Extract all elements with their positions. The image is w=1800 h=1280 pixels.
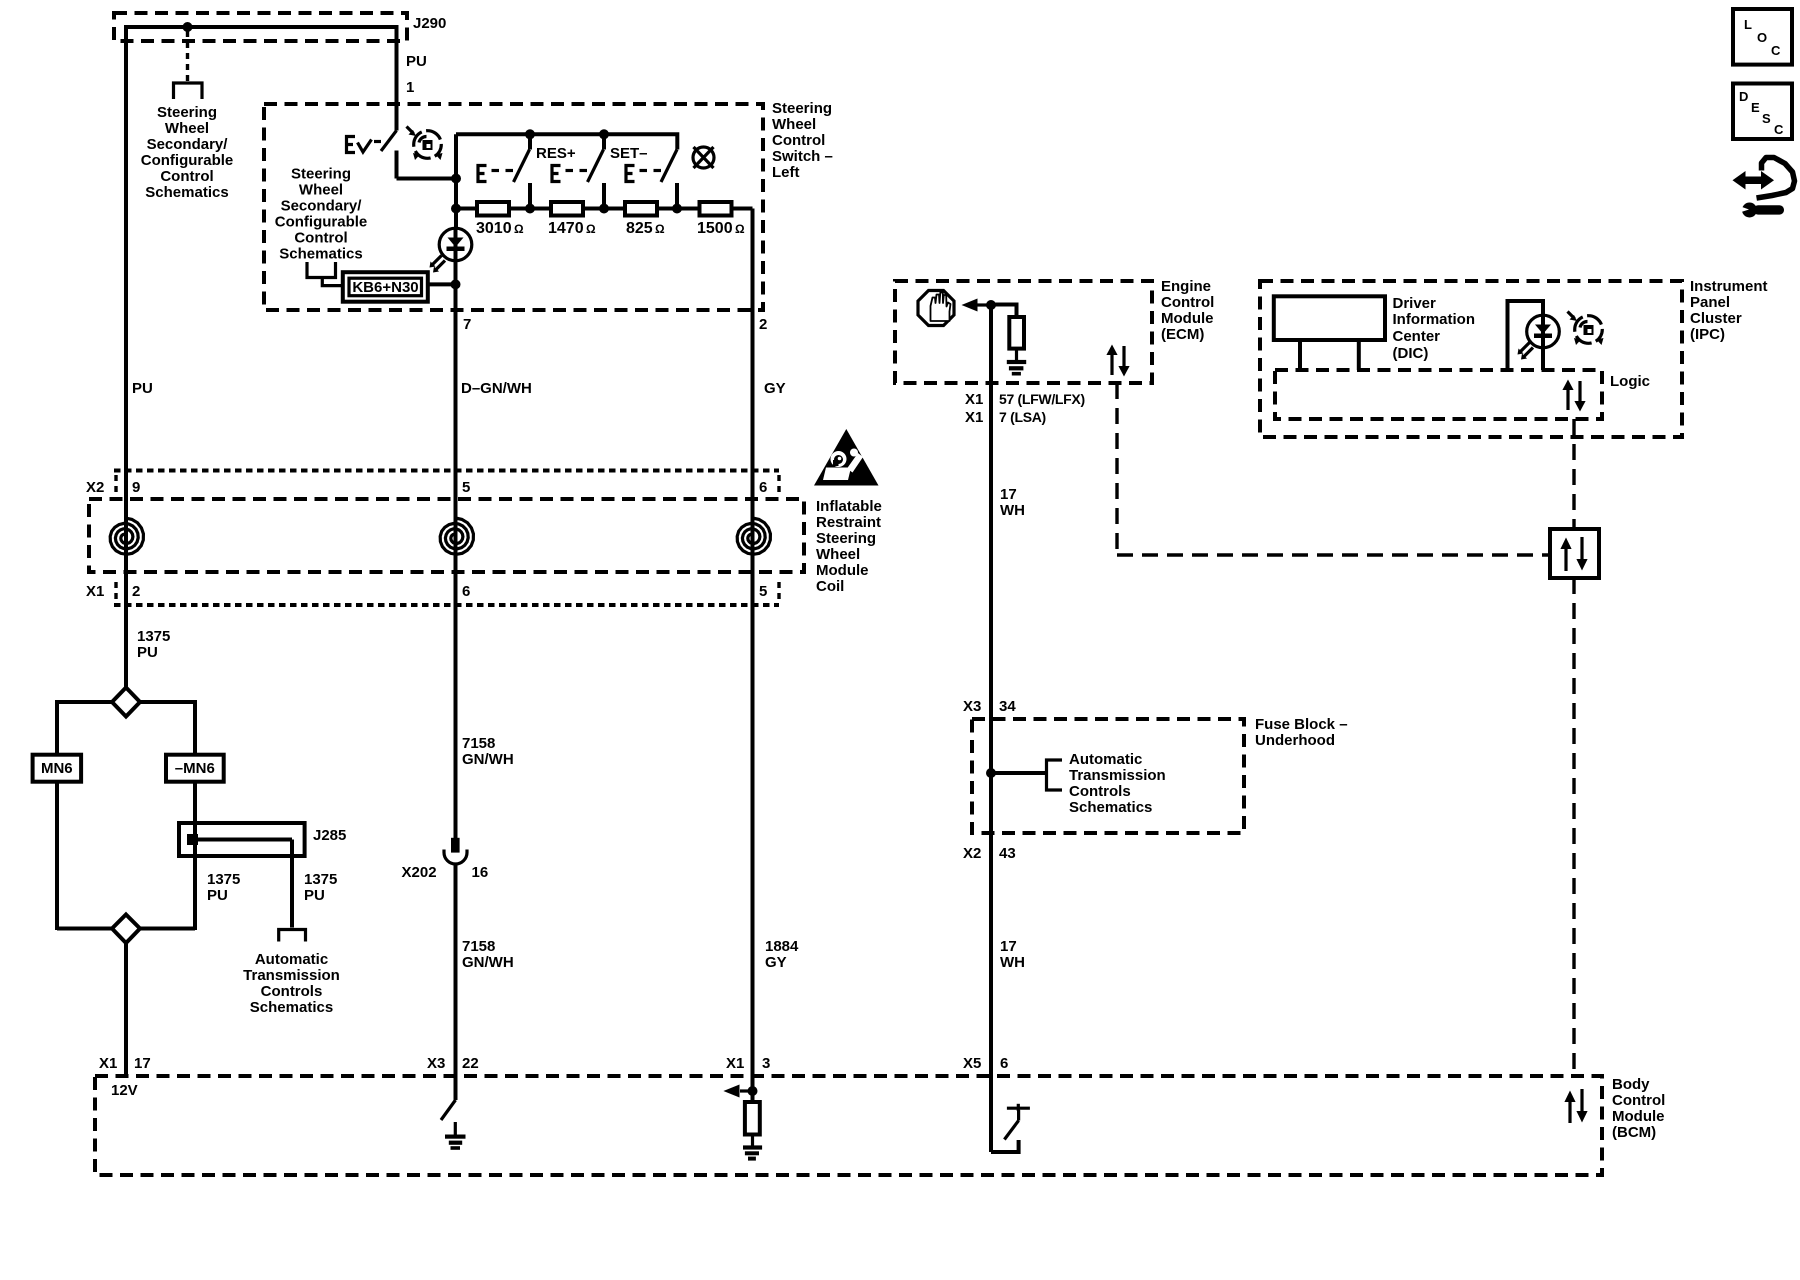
branch bottom rail (57, 927, 195, 931)
ground stub X3/22 (454, 1122, 457, 1135)
svg-text:PU: PU (137, 644, 158, 661)
stub S2 upper (528, 134, 532, 149)
junction rail 530 (525, 204, 535, 214)
pin 16 (472, 864, 489, 881)
svg-text:Wheel: Wheel (165, 120, 209, 137)
svg-text:Steering: Steering (772, 100, 832, 117)
text fuse block underhood (1255, 716, 1348, 749)
switch S3 actuator E (552, 166, 587, 182)
svg-text:6: 6 (1000, 1055, 1008, 1072)
svg-text:Ω: Ω (514, 222, 524, 236)
serial data arrows IPC logic (1562, 380, 1585, 412)
branch right wire to J285 (193, 782, 197, 823)
wire KB6 to W2 (428, 282, 456, 286)
label Logic (1610, 373, 1650, 390)
svg-text:D–GN/WH: D–GN/WH (461, 380, 532, 397)
text automatic transmission controls schematics (fuse block) (1069, 751, 1166, 816)
label J285 (313, 827, 346, 844)
svg-text:–MN6: –MN6 (175, 760, 215, 777)
off-page bracket (steering wheel secondary schematics) (174, 83, 203, 99)
svg-text:X1: X1 (99, 1055, 117, 1072)
junction bus 530 (525, 129, 535, 139)
junction at bus x456 (451, 174, 461, 184)
text body control module (BCM) (1612, 1076, 1665, 1141)
option box -MN6 (166, 755, 224, 782)
label steering wheel control switch - left (772, 100, 833, 181)
pin X3 22 (427, 1055, 479, 1072)
stub S3 lower (602, 183, 606, 209)
svg-text:(DIC): (DIC) (1393, 345, 1429, 362)
option diamond lower (112, 915, 140, 944)
connector line X1 (in-line harness) (114, 603, 779, 607)
svg-text:PU: PU (132, 380, 153, 397)
connector line X2 (in-line harness) (114, 469, 779, 473)
resistor R1 3010 (477, 202, 509, 216)
svg-text:825: 825 (626, 220, 653, 237)
label 7158 GN/WH lower (462, 938, 514, 971)
svg-text:Schematics: Schematics (279, 246, 362, 263)
svg-text:Engine: Engine (1161, 278, 1211, 295)
pin 2 (759, 316, 767, 333)
value 1470 ohm (548, 220, 596, 237)
svg-text:(ECM): (ECM) (1161, 326, 1204, 343)
svg-text:X1: X1 (86, 583, 104, 600)
svg-text:RES+: RES+ (536, 145, 576, 162)
svg-text:Secondary/: Secondary/ (147, 136, 229, 153)
switch S1 actuator E with check (347, 137, 382, 153)
text instrument panel cluster (IPC) (1690, 278, 1768, 343)
pin X3 34 (963, 698, 1016, 715)
svg-text:5: 5 (462, 479, 470, 496)
svg-text:WH: WH (1000, 954, 1025, 971)
svg-text:Logic: Logic (1610, 373, 1650, 390)
BCM leg X1/3 wire (751, 1076, 755, 1102)
LED D1 backlight (430, 228, 472, 272)
pin X2 43 (963, 845, 1016, 862)
wire W2 upper segment (454, 134, 458, 228)
svg-text:GY: GY (765, 954, 787, 971)
svg-text:J285: J285 (313, 827, 346, 844)
svg-text:6: 6 (759, 479, 767, 496)
svg-text:GY: GY (764, 380, 786, 397)
svg-text:16: 16 (472, 864, 489, 881)
svg-text:(IPC): (IPC) (1690, 326, 1725, 343)
text steering wheel secondary (inner) (275, 166, 368, 263)
svg-text:Module: Module (1161, 310, 1214, 327)
svg-text:7158: 7158 (462, 938, 495, 955)
svg-text:Center: Center (1393, 328, 1441, 345)
svg-text:1375: 1375 (304, 871, 337, 888)
svg-text:Schematics: Schematics (1069, 799, 1152, 816)
svg-text:Transmission: Transmission (243, 967, 340, 984)
svg-text:J290: J290 (413, 15, 446, 32)
text inflatable restraint steering wheel module coil (816, 498, 882, 595)
svg-text:1: 1 (406, 79, 414, 96)
label SET- (610, 145, 648, 162)
svg-text:9: 9 (132, 479, 140, 496)
svg-text:Automatic: Automatic (255, 951, 328, 968)
module box engine control module ECM (895, 281, 1152, 383)
branch top rail (57, 700, 195, 704)
svg-text:MN6: MN6 (41, 760, 73, 777)
pin 2 (132, 583, 140, 600)
label 17 WH upper (1000, 486, 1025, 519)
svg-text:Underhood: Underhood (1255, 732, 1335, 749)
label PU (406, 53, 427, 70)
switch S1 blade (381, 131, 397, 152)
module box steering wheel control switch left (264, 104, 763, 310)
svg-text:5: 5 (759, 583, 767, 600)
svg-text:Wheel: Wheel (816, 546, 860, 563)
option box MN6 (33, 755, 82, 782)
lead to AT controls bracket (991, 771, 1047, 775)
serial data dashed IPC down (1572, 419, 1575, 529)
svg-text:Ω: Ω (655, 222, 665, 236)
DIC leg left (1298, 340, 1302, 370)
svg-text:Wheel: Wheel (772, 116, 816, 133)
svg-text:22: 22 (462, 1055, 479, 1072)
pin 1 (406, 79, 414, 96)
svg-text:Configurable: Configurable (275, 214, 368, 231)
label X1 (86, 583, 104, 600)
svg-text:Steering: Steering (816, 530, 876, 547)
svg-text:GN/WH: GN/WH (462, 751, 514, 768)
svg-text:Secondary/: Secondary/ (281, 198, 363, 215)
coil L3 (737, 518, 770, 554)
internal resistor lead (991, 305, 1017, 319)
module box body control module BCM (95, 1076, 1602, 1175)
pin X5 6 (963, 1055, 1008, 1072)
pin 6 (462, 583, 470, 600)
wire through J285 down (193, 823, 197, 930)
stub S4 lower (675, 183, 679, 209)
dashed lead to off-page bracket (186, 31, 189, 81)
switch S4 blade (661, 150, 677, 183)
svg-text:SET–: SET– (610, 145, 648, 162)
switch S4 actuator E (626, 166, 661, 182)
resistor R4 1500 (700, 202, 732, 216)
pin 5 (759, 583, 767, 600)
coil L2 (440, 518, 473, 554)
lead bracket to KB6 (322, 278, 343, 286)
svg-text:X2: X2 (86, 479, 104, 496)
svg-text:Cluster: Cluster (1690, 310, 1742, 327)
svg-text:X3: X3 (427, 1055, 445, 1072)
svg-text:Steering: Steering (291, 166, 351, 183)
wire W2 from LED to box bottom (454, 260, 458, 312)
display DIC rectangle (1274, 296, 1385, 340)
svg-text:(BCM): (BCM) (1612, 1124, 1656, 1141)
serial data dashed ECM down (1115, 383, 1118, 555)
svg-text:X1: X1 (965, 391, 983, 408)
wire inside J290 (126, 25, 397, 29)
switch S1 lower contact stub (395, 151, 399, 179)
text automatic transmission controls schematics (243, 951, 340, 1016)
wire R4 to W3 (732, 207, 753, 211)
BCM leg X5/6 wire (989, 1076, 993, 1152)
svg-text:L: L (1744, 17, 1752, 32)
svg-text:7: 7 (463, 316, 471, 333)
svg-text:Wheel: Wheel (299, 182, 343, 199)
svg-text:1500: 1500 (697, 220, 733, 237)
label GY (764, 380, 786, 397)
serial data arrows ECM (1106, 345, 1129, 377)
BCM X5/6 switch blade (1004, 1121, 1018, 1140)
svg-text:Module: Module (1612, 1108, 1665, 1125)
svg-text:Left: Left (772, 164, 800, 181)
svg-text:6: 6 (462, 583, 470, 600)
svg-text:3010: 3010 (476, 220, 512, 237)
reference icon LOC (1733, 9, 1792, 65)
svg-text:17: 17 (1000, 486, 1017, 503)
branch left wire upper (55, 700, 59, 755)
resistor lead to ground (751, 1135, 754, 1147)
svg-text:1470: 1470 (548, 220, 584, 237)
svg-text:PU: PU (304, 887, 325, 904)
wire W2 middle segment (454, 310, 458, 839)
svg-text:Control: Control (1161, 294, 1214, 311)
svg-text:2: 2 (132, 583, 140, 600)
cruise indicator icon IPC (1568, 312, 1604, 346)
wire J285 right drop (290, 840, 294, 928)
text driver information center (DIC) (1393, 295, 1476, 362)
svg-text:X3: X3 (963, 698, 981, 715)
label PU on W1 (132, 380, 153, 397)
internal resistor BCM (745, 1102, 760, 1135)
svg-text:Module: Module (816, 562, 869, 579)
svg-text:Control: Control (294, 230, 347, 247)
svg-text:X1: X1 (965, 409, 983, 426)
arrow to stop lamp (962, 299, 992, 312)
BCM X5/6 upper contact stub (1017, 1110, 1020, 1121)
label 1375 PU (right drop) (304, 871, 337, 904)
svg-text:PU: PU (207, 887, 228, 904)
switch S2 blade (514, 150, 530, 183)
coil L1 (110, 518, 143, 554)
junction ECM (986, 300, 996, 310)
label RES+ (536, 145, 576, 162)
svg-text:X202: X202 (402, 864, 437, 881)
svg-text:Schematics: Schematics (250, 999, 333, 1016)
svg-text:2: 2 (759, 316, 767, 333)
top bus of switches (456, 134, 677, 149)
label 7158 GN/WH upper (462, 735, 514, 768)
label J290 (413, 15, 446, 32)
connector code box KB6+N30 (343, 272, 428, 302)
svg-text:3: 3 (762, 1055, 770, 1072)
svg-text:Ω: Ω (735, 222, 745, 236)
junction in J290 (183, 22, 193, 32)
svg-text:34: 34 (999, 698, 1016, 715)
pin 5 (462, 479, 470, 496)
svg-text:17: 17 (134, 1055, 151, 1072)
svg-text:Body: Body (1612, 1076, 1650, 1093)
svg-text:Steering: Steering (157, 104, 217, 121)
svg-text:Coil: Coil (816, 578, 844, 595)
repair info icon (arrows and wrench) (1733, 158, 1795, 218)
svg-text:Controls: Controls (1069, 783, 1131, 800)
svg-text:7 (LSA): 7 (LSA) (999, 409, 1046, 425)
svg-text:C: C (1774, 122, 1784, 137)
label 1375 PU (left drop) (207, 871, 240, 904)
serial data dashed to BCM (1572, 578, 1575, 1076)
module box instrument panel cluster IPC (1260, 281, 1682, 437)
junction bus 604 (599, 129, 609, 139)
wire from J290 down to switch (395, 25, 399, 131)
svg-text:Control: Control (1612, 1092, 1665, 1109)
switch S3 blade (588, 150, 604, 183)
value 1500 ohm (697, 220, 745, 237)
X2 separator tick left (114, 475, 117, 497)
logic box (dashed) (1275, 370, 1602, 419)
pin 7 (463, 316, 471, 333)
splice box J290 (114, 13, 407, 41)
svg-text:Information: Information (1393, 311, 1476, 328)
svg-text:C: C (1771, 43, 1781, 58)
svg-text:PU: PU (406, 53, 427, 70)
label X202 (402, 864, 437, 881)
svg-text:Panel: Panel (1690, 294, 1730, 311)
svg-text:Ω: Ω (586, 222, 596, 236)
label 1884 GY (765, 938, 799, 971)
module box inflatable restraint coil (89, 499, 804, 572)
text steering wheel secondary/configurable control schematics (left) (141, 104, 234, 201)
svg-text:X1: X1 (726, 1055, 744, 1072)
wire W3 upper (751, 209, 755, 1077)
internal resistor ECM (1009, 317, 1024, 349)
svg-text:Configurable: Configurable (141, 152, 234, 169)
resistor ladder rail (456, 207, 753, 211)
serial data gateway box (1550, 529, 1599, 578)
svg-text:Restraint: Restraint (816, 514, 881, 531)
svg-text:7158: 7158 (462, 735, 495, 752)
svg-text:Instrument: Instrument (1690, 278, 1768, 295)
svg-text:KB6+N30: KB6+N30 (352, 279, 418, 296)
svg-text:Inflatable: Inflatable (816, 498, 882, 515)
svg-text:X2: X2 (963, 845, 981, 862)
switch S2 actuator E (478, 166, 513, 182)
resistor R2 1470 (551, 202, 583, 216)
BCM X5/6 contact T-bar (1007, 1104, 1030, 1111)
svg-text:57 (LFW/LFX): 57 (LFW/LFX) (999, 391, 1085, 407)
wire W4 from ECM (989, 305, 993, 1076)
BCM switch leg X3/22 wire (454, 1076, 458, 1100)
svg-text:S: S (1762, 111, 1771, 126)
reference icon DESC (1733, 84, 1792, 140)
off-page bracket to AT controls (279, 930, 306, 942)
svg-text:1375: 1375 (207, 871, 240, 888)
DIC leg right (1357, 340, 1361, 370)
pin X1 3 (726, 1055, 770, 1072)
wire S1 to main bus (397, 177, 457, 181)
svg-text:X5: X5 (963, 1055, 981, 1072)
branch right wire upper (193, 700, 197, 755)
svg-text:Transmission: Transmission (1069, 767, 1166, 784)
label 17 WH lower (1000, 938, 1025, 971)
junction rail 604 (599, 204, 609, 214)
pin 6 (759, 479, 767, 496)
in-line connector X202 (444, 838, 467, 864)
svg-text:WH: WH (1000, 502, 1025, 519)
svg-text:12V: 12V (111, 1082, 138, 1099)
cruise control set-speed icon (407, 127, 443, 161)
stub S2 lower (528, 183, 532, 209)
off-page bracket above KB6 (307, 262, 336, 278)
junction rail 456 (451, 204, 461, 214)
pin X1 57 (LFW/LFX) (965, 391, 1085, 408)
svg-text:Switch –: Switch – (772, 148, 833, 165)
text engine control module (ECM) (1161, 278, 1214, 343)
wire left vertical PU (W1 upper) (124, 25, 128, 687)
X2 end tick right (777, 475, 780, 497)
resistor to ground lead (1015, 349, 1018, 360)
svg-text:GN/WH: GN/WH (462, 954, 514, 971)
option diamond upper (112, 688, 140, 717)
label 12V (111, 1082, 138, 1099)
junction KB6/W2 (451, 279, 461, 289)
svg-text:43: 43 (999, 845, 1016, 862)
svg-text:Controls: Controls (261, 983, 323, 1000)
lamp symbol (693, 147, 714, 168)
svg-text:Automatic: Automatic (1069, 751, 1142, 768)
resistor R3 825 (625, 202, 657, 216)
svg-text:1884: 1884 (765, 938, 799, 955)
serial data arrows BCM (1564, 1089, 1587, 1123)
ground symbol ECM (1007, 360, 1026, 376)
LED indicator IPC (1508, 301, 1560, 370)
X1 separator tick left (114, 582, 117, 601)
serial data dashed horizontal (1117, 553, 1550, 556)
value 3010 ohm (476, 220, 524, 237)
junction fuse block (986, 768, 996, 778)
branch left wire lower (55, 782, 59, 930)
svg-text:Schematics: Schematics (145, 184, 228, 201)
label X2 (86, 479, 104, 496)
pin 9 (132, 479, 140, 496)
junction rail 677 (672, 204, 682, 214)
stop lamp octagon symbol (918, 291, 954, 326)
X1 end tick right (777, 582, 780, 601)
label 1375 PU (above option split) (137, 628, 170, 661)
svg-text:1375: 1375 (137, 628, 170, 645)
svg-text:Control: Control (772, 132, 825, 149)
label D-GN/WH (461, 380, 532, 397)
splice pack J285 (179, 823, 305, 856)
BCM switch blade X3/22 (441, 1100, 456, 1120)
svg-text:17: 17 (1000, 938, 1017, 955)
module box fuse block underhood (972, 719, 1244, 833)
stub S3 upper (602, 134, 606, 149)
pin X1 17 (99, 1055, 151, 1072)
svg-text:D: D (1739, 89, 1748, 104)
pin X1 7 (LSA) (965, 409, 1046, 426)
svg-text:Fuse Block –: Fuse Block – (1255, 716, 1348, 733)
svg-text:Driver: Driver (1393, 295, 1437, 312)
junction X1/3 (748, 1086, 758, 1096)
ground symbol X1/3 (743, 1145, 762, 1160)
svg-text:Control: Control (160, 168, 213, 185)
svg-text:E: E (1751, 100, 1760, 115)
BCM X5/6 lower contact L (991, 1140, 1019, 1152)
wire W2 below X202 (454, 864, 458, 1076)
off-page bracket AT controls (fuse block) (1047, 760, 1063, 790)
arrow left X1/3 (723, 1085, 752, 1098)
ground symbol X3/22 (445, 1135, 466, 1150)
value 825 ohm (626, 220, 665, 237)
svg-text:O: O (1757, 30, 1767, 45)
wire W1 lower to BCM (124, 943, 128, 1076)
SRS warning triangle (814, 429, 879, 486)
